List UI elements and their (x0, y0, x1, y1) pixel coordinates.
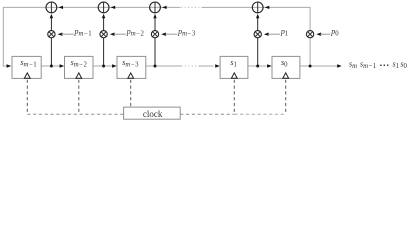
svg-text:pm−3: pm−3 (177, 27, 196, 38)
svg-text:sm−3: sm−3 (122, 58, 139, 69)
svg-text:s0: s0 (400, 59, 407, 70)
svg-text:p1: p1 (280, 27, 288, 38)
svg-text:clock: clock (143, 109, 163, 119)
svg-text:sm−1: sm−1 (20, 58, 37, 69)
svg-text:sm−2: sm−2 (71, 58, 88, 69)
svg-text:s1: s1 (393, 59, 400, 70)
svg-text:sm−1: sm−1 (360, 59, 377, 70)
svg-text:s0: s0 (281, 58, 288, 69)
svg-text:sm: sm (349, 59, 357, 70)
svg-text:pm−1: pm−1 (74, 27, 93, 38)
svg-text:s1: s1 (230, 58, 237, 69)
svg-text:p0: p0 (330, 27, 339, 38)
svg-text:pm−2: pm−2 (126, 27, 145, 38)
